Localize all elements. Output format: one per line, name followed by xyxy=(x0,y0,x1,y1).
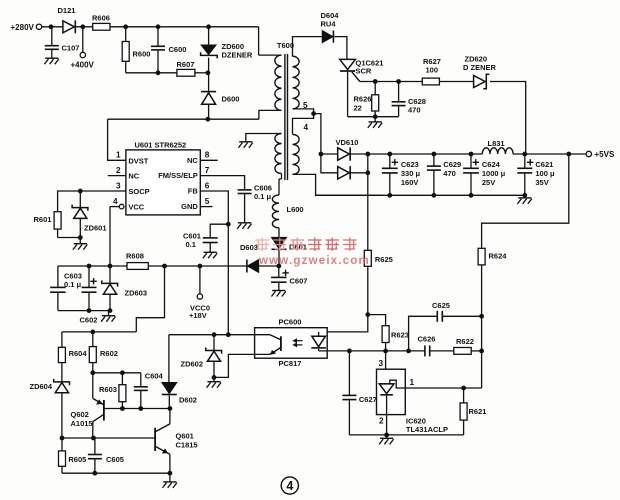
transistor Q602 A1015 xyxy=(92,373,94,399)
svg-text:SCR: SCR xyxy=(356,67,372,76)
node J24 xyxy=(365,152,370,157)
wire xyxy=(367,266,369,314)
svg-text:PC817: PC817 xyxy=(279,359,302,368)
svg-text:0.1 μ: 0.1 μ xyxy=(254,192,272,201)
wire VCC rail xyxy=(58,265,127,267)
svg-text:4: 4 xyxy=(113,197,118,206)
zener ZD604 xyxy=(54,379,70,385)
node J9 xyxy=(226,222,231,227)
wire pin7 to C606 xyxy=(200,176,244,190)
watermark text xyxy=(256,238,357,252)
ground xyxy=(386,435,388,438)
node J45 xyxy=(384,433,389,438)
wire xyxy=(439,81,473,83)
capacitor C625 xyxy=(436,311,438,322)
diode D602 xyxy=(168,335,170,383)
svg-text:U601 STR6252: U601 STR6252 xyxy=(135,141,187,150)
svg-text:L831: L831 xyxy=(488,139,505,148)
transformer T600 primary winding xyxy=(258,27,260,55)
node J48 xyxy=(120,370,125,375)
node J12 xyxy=(87,264,92,269)
resistor R606 xyxy=(93,23,110,30)
svg-text:+280V: +280V xyxy=(11,23,35,32)
wire pin5 xyxy=(293,109,314,114)
wire collector rail xyxy=(169,334,270,336)
wire R625 drop xyxy=(367,154,369,250)
node J52 xyxy=(60,436,65,441)
wire xyxy=(210,224,228,237)
resistor R602 xyxy=(92,332,94,347)
capacitor C607 xyxy=(278,266,280,277)
node +5VS terminal xyxy=(586,151,591,156)
wire xyxy=(169,409,171,424)
svg-text:D121: D121 xyxy=(58,6,76,15)
svg-text:www.gzweix.com: www.gzweix.com xyxy=(258,255,370,267)
node J32 xyxy=(522,152,527,157)
wire output top rail xyxy=(368,153,483,155)
wire xyxy=(385,351,387,384)
node J14 xyxy=(162,264,167,269)
diode VD610 upper xyxy=(321,153,338,155)
resistor R604 xyxy=(61,332,63,347)
node J28 xyxy=(432,152,437,157)
svg-text:Q601: Q601 xyxy=(176,432,194,441)
wire xyxy=(490,82,526,155)
zener ZD600 xyxy=(208,27,210,45)
svg-text:0.1: 0.1 xyxy=(186,240,196,249)
ground xyxy=(79,238,81,244)
svg-text:5: 5 xyxy=(303,101,308,110)
node J2 xyxy=(80,24,85,29)
svg-text:VD610: VD610 xyxy=(336,138,359,147)
node J37 xyxy=(226,332,231,337)
node J38 xyxy=(212,375,217,380)
zener ZD620 xyxy=(474,76,486,88)
node J42 xyxy=(479,349,484,354)
svg-text:D603: D603 xyxy=(240,243,258,252)
ground xyxy=(108,311,110,316)
phototransistor inside PC600 xyxy=(280,336,282,351)
capacitor C107 xyxy=(51,27,53,45)
capacitor C604 xyxy=(140,373,142,387)
svg-text:3: 3 xyxy=(116,182,121,191)
wire pin3 SOCP xyxy=(58,191,126,212)
svg-text:C625: C625 xyxy=(432,301,450,310)
wire xyxy=(259,110,282,119)
pin 2 xyxy=(108,175,126,177)
svg-text:TL431ACLP: TL431ACLP xyxy=(406,425,448,434)
transformer T600 secondary winding lower xyxy=(293,114,314,135)
capacitor C601 xyxy=(203,237,218,239)
svg-text:R626: R626 xyxy=(354,95,372,104)
diode VD610 lower xyxy=(321,154,338,173)
node J44 xyxy=(461,386,466,391)
svg-text:470: 470 xyxy=(443,169,456,178)
svg-text:330 μ: 330 μ xyxy=(401,169,421,178)
svg-text:+400V: +400V xyxy=(71,61,95,70)
wire xyxy=(442,315,481,317)
node J27 xyxy=(387,193,392,198)
resistor R603 xyxy=(121,373,123,385)
svg-text:A1015: A1015 xyxy=(71,419,93,428)
node J3 xyxy=(123,24,128,29)
wire xyxy=(293,174,383,195)
svg-text:ZD603: ZD603 xyxy=(125,289,148,298)
svg-text:C629: C629 xyxy=(443,160,461,169)
node J13 xyxy=(108,264,113,269)
svg-text:NC: NC xyxy=(187,156,198,165)
svg-text:SOCP: SOCP xyxy=(128,187,149,196)
node J16 xyxy=(87,308,92,313)
resistor R601 xyxy=(54,212,61,229)
svg-text:100: 100 xyxy=(426,65,439,74)
svg-text:8: 8 xyxy=(205,151,210,160)
svg-text:NC: NC xyxy=(128,172,139,181)
node J50 xyxy=(138,406,143,411)
svg-text:160V: 160V xyxy=(401,178,419,187)
wire emitter route xyxy=(214,354,270,377)
svg-text:470: 470 xyxy=(408,106,421,115)
svg-text:2: 2 xyxy=(116,166,121,175)
LED arrows xyxy=(294,340,303,342)
zener ZD603 xyxy=(109,266,111,283)
wire xyxy=(195,72,209,74)
svg-text:D600: D600 xyxy=(222,95,240,104)
wire xyxy=(368,315,386,326)
wire xyxy=(108,118,259,120)
node J26 xyxy=(387,152,392,157)
node J39 xyxy=(347,349,352,354)
node J19 xyxy=(311,111,316,116)
node J20 xyxy=(373,79,378,84)
ground xyxy=(374,117,376,122)
svg-text:R606: R606 xyxy=(92,14,110,23)
node J29 xyxy=(432,193,437,198)
capacitor C602 xyxy=(88,266,90,287)
svg-text:PC600: PC600 xyxy=(279,318,302,327)
wire xyxy=(93,372,141,374)
ground xyxy=(238,222,251,224)
op-amp U601 STR6252 xyxy=(126,150,200,215)
svg-text:D602: D602 xyxy=(179,396,197,405)
wire xyxy=(481,265,483,388)
svg-text:R607: R607 xyxy=(177,60,195,69)
svg-text:C1815: C1815 xyxy=(176,440,198,449)
capacitor C627 xyxy=(348,351,350,395)
node J23 xyxy=(319,152,324,157)
node J46 xyxy=(90,330,95,335)
svg-text:C627: C627 xyxy=(359,395,377,404)
resistor R627 xyxy=(422,78,439,85)
svg-text:1000 μ: 1000 μ xyxy=(482,169,506,178)
resistor R607 xyxy=(177,69,195,76)
svg-text:C107: C107 xyxy=(62,44,80,53)
node J17 xyxy=(108,308,113,313)
svg-text:DZENER: DZENER xyxy=(222,51,253,60)
node J5 xyxy=(156,70,161,75)
svg-text:RU4: RU4 xyxy=(321,20,337,29)
svg-text:C607: C607 xyxy=(290,277,308,286)
wire xyxy=(471,350,481,352)
transformer T600 core xyxy=(284,54,286,180)
svg-text:4: 4 xyxy=(304,123,309,132)
pin 4 xyxy=(119,204,124,209)
TL431 symbol xyxy=(379,383,394,385)
wire xyxy=(334,37,347,60)
svg-text:R621: R621 xyxy=(469,407,487,416)
node J55 xyxy=(168,471,173,476)
ground xyxy=(272,290,285,292)
node J31 xyxy=(469,193,474,198)
node J51 xyxy=(168,406,173,411)
resistor R600 xyxy=(125,27,127,42)
wire pin1 riser xyxy=(108,119,126,160)
svg-text:C624: C624 xyxy=(482,160,501,169)
resistor R605 xyxy=(61,438,63,451)
resistor R626 xyxy=(374,82,376,95)
diode D121 xyxy=(63,21,75,33)
wire xyxy=(126,72,177,74)
svg-text:1: 1 xyxy=(410,378,415,387)
wire base wire xyxy=(62,437,155,439)
capacitor C628 xyxy=(398,82,400,102)
wire pin6 FB xyxy=(200,191,228,224)
wire bottom rail xyxy=(62,472,170,474)
svg-text:2: 2 xyxy=(379,417,384,426)
wire xyxy=(76,26,93,28)
svg-text:C602: C602 xyxy=(80,316,98,325)
svg-text:1: 1 xyxy=(116,151,121,160)
node J21 xyxy=(396,79,401,84)
transformer T600 secondary winding upper xyxy=(293,37,322,57)
svg-text:C621: C621 xyxy=(535,160,553,169)
svg-text:0.1 μ: 0.1 μ xyxy=(64,280,82,289)
node J33 xyxy=(522,193,527,198)
node +400V terminal xyxy=(82,27,84,53)
pin 5 xyxy=(200,206,212,208)
wire xyxy=(430,350,454,352)
wire output bottom rail xyxy=(316,194,525,196)
svg-text:R623: R623 xyxy=(391,331,409,340)
svg-text:GND: GND xyxy=(181,202,198,211)
wire xyxy=(58,310,110,312)
svg-text:100 μ: 100 μ xyxy=(535,169,555,178)
wire C625 branch xyxy=(409,316,438,351)
svg-text:ZD602: ZD602 xyxy=(181,360,204,369)
wire xyxy=(314,114,321,154)
svg-text:R602: R602 xyxy=(100,349,118,358)
node J36 xyxy=(212,332,217,337)
LED inside PC600 xyxy=(318,332,320,336)
capacitor C626 xyxy=(424,345,426,356)
transistor Q601 C1815 xyxy=(154,428,156,451)
svg-text:7: 7 xyxy=(205,166,210,175)
wire FB vertical xyxy=(227,224,229,335)
resistor R622 xyxy=(454,348,471,355)
ground xyxy=(524,195,526,198)
svg-text:C600: C600 xyxy=(169,45,187,54)
pin 8 xyxy=(200,159,217,161)
node J15 VCC0 +18V terminal xyxy=(198,264,203,269)
diode D601 xyxy=(278,228,280,238)
svg-text:6: 6 xyxy=(205,182,210,191)
svg-text:FB: FB xyxy=(188,187,199,196)
svg-text:+5VS: +5VS xyxy=(595,150,615,159)
node J6 xyxy=(206,70,211,75)
svg-text:R622: R622 xyxy=(456,337,474,346)
svg-text:25V: 25V xyxy=(482,178,495,187)
node J41 xyxy=(406,349,411,354)
TL431 ref tab pin 1 xyxy=(390,380,482,388)
svg-text:L600: L600 xyxy=(287,205,304,214)
node J4 xyxy=(156,24,161,29)
node J35 xyxy=(365,312,370,317)
diode D604 xyxy=(321,36,322,38)
node J22 xyxy=(373,114,378,119)
svg-text:R604: R604 xyxy=(69,349,88,358)
node J18 xyxy=(276,264,281,269)
node J30 xyxy=(469,152,474,157)
wire step to Q602 stage xyxy=(136,266,164,332)
optocoupler PC600 PC817 xyxy=(255,328,328,359)
resistor R621 xyxy=(463,388,465,403)
wire xyxy=(281,174,283,180)
wire mid rail xyxy=(319,350,425,352)
svg-text:D ZENER: D ZENER xyxy=(463,63,497,72)
node J7 xyxy=(206,24,211,29)
capacitor C623 xyxy=(389,154,391,168)
wire xyxy=(58,237,81,239)
svg-text:ZD601: ZD601 xyxy=(84,224,107,233)
resistor R624 xyxy=(478,248,485,265)
wire SCR gate line xyxy=(360,81,423,83)
wire bottom rail xyxy=(349,434,463,436)
svg-text:R600: R600 xyxy=(133,50,151,59)
svg-text:Q602: Q602 xyxy=(71,410,89,419)
svg-text:C605: C605 xyxy=(106,455,124,464)
inductor L831 xyxy=(482,148,513,154)
inductor L600 xyxy=(272,195,279,228)
node +280V input terminal xyxy=(36,24,41,29)
node J10 xyxy=(78,189,83,194)
ground xyxy=(204,251,217,253)
node J47 xyxy=(90,370,95,375)
capacitor C629 xyxy=(433,154,435,166)
resistor R608 xyxy=(127,263,148,270)
wire xyxy=(348,116,399,118)
op-amp IC620 TL431ACLP xyxy=(377,369,406,414)
svg-text:T600: T600 xyxy=(277,41,294,50)
diode D603 xyxy=(248,260,259,272)
svg-text:4: 4 xyxy=(286,479,293,493)
transformer T600 aux winding xyxy=(246,134,282,142)
capacitor C624 xyxy=(470,154,472,168)
svg-text:C604: C604 xyxy=(145,372,164,381)
wire base rail xyxy=(104,408,170,410)
svg-text:35V: 35V xyxy=(535,178,548,187)
zener ZD602 xyxy=(213,335,215,351)
svg-text:DVST: DVST xyxy=(128,156,148,165)
node J43 xyxy=(479,314,484,319)
svg-text:C626: C626 xyxy=(418,335,436,344)
svg-text:R624: R624 xyxy=(489,252,508,261)
wire xyxy=(42,26,63,28)
capacitor C605 xyxy=(94,438,96,454)
node J8 xyxy=(206,117,211,122)
capacitor C621 xyxy=(524,154,526,168)
node J25 xyxy=(365,170,370,175)
svg-text:R603: R603 xyxy=(99,385,117,394)
wire Q602 stage rail xyxy=(62,331,136,333)
node J34 xyxy=(566,152,571,157)
svg-text:VCC: VCC xyxy=(128,203,144,212)
node J54 xyxy=(93,471,98,476)
capacitor C603 xyxy=(57,266,59,287)
node J1 xyxy=(49,24,54,29)
node J49 xyxy=(120,406,125,411)
capacitor C600 xyxy=(157,27,159,46)
svg-text:ZD604: ZD604 xyxy=(30,382,53,391)
node J11 xyxy=(78,235,83,240)
svg-text:R608: R608 xyxy=(126,252,144,261)
wire pin4 VCC riser xyxy=(109,207,111,266)
svg-text:3: 3 xyxy=(379,359,384,368)
thyristor Q1C621 SCR xyxy=(340,59,356,69)
svg-text:FM/SS/ELP: FM/SS/ELP xyxy=(158,171,198,180)
svg-text:22: 22 xyxy=(354,104,362,113)
node J53 xyxy=(91,436,96,441)
ground xyxy=(239,141,252,143)
resistor R623 xyxy=(382,326,389,343)
wire to opto LED xyxy=(319,315,368,332)
resistor R625 xyxy=(364,250,371,266)
wire xyxy=(110,26,259,28)
diode D600 xyxy=(208,73,210,93)
svg-text:R605: R605 xyxy=(68,455,86,464)
svg-text:+18V: +18V xyxy=(189,311,207,320)
node J40 xyxy=(383,349,388,354)
ground xyxy=(169,473,171,482)
zener ZD601 xyxy=(79,191,81,208)
wire R624 link xyxy=(482,154,569,248)
svg-text:R625: R625 xyxy=(375,255,393,264)
svg-text:R601: R601 xyxy=(34,215,52,224)
ground xyxy=(45,57,58,59)
page number 4 xyxy=(281,477,298,494)
svg-text:C623: C623 xyxy=(401,160,419,169)
ground xyxy=(213,377,215,381)
svg-text:5: 5 xyxy=(205,197,210,206)
capacitor C606 xyxy=(238,189,252,191)
